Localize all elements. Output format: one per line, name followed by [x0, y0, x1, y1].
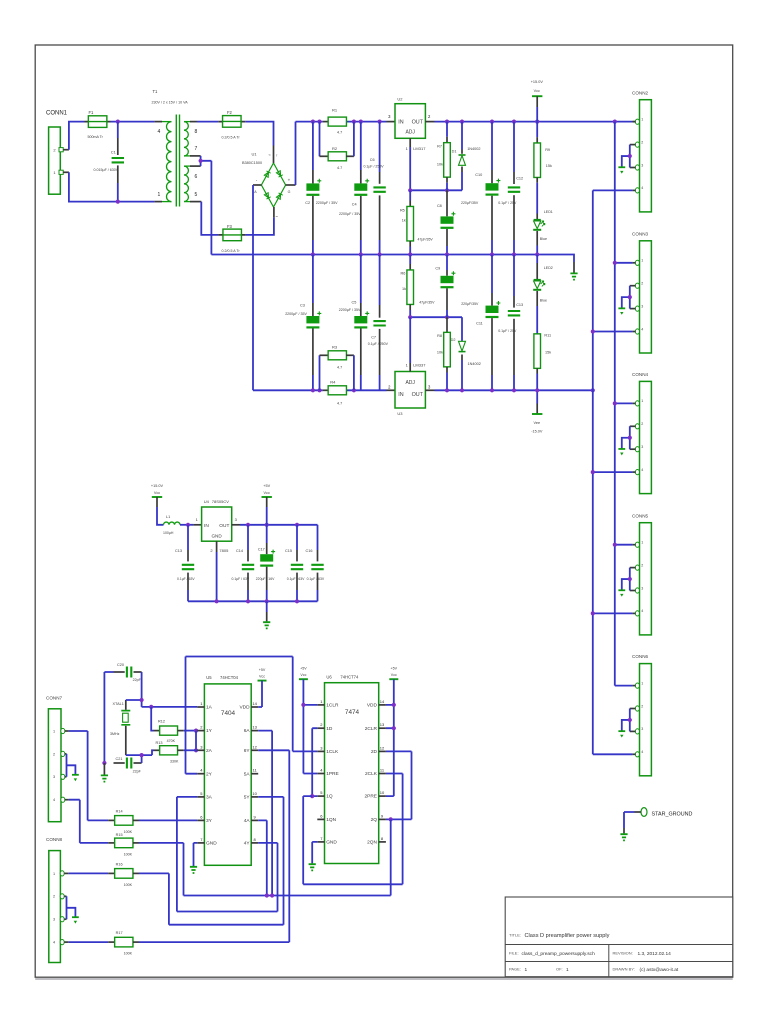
svg-text:R3: R3 — [332, 345, 338, 350]
svg-text:R1: R1 — [332, 108, 338, 113]
svg-text:2: 2 — [53, 752, 55, 756]
junction R3 right — [352, 388, 356, 392]
U4 OUT pin stub — [232, 524, 240, 526]
svg-text:R7: R7 — [437, 144, 442, 148]
wire T1 pin5 to F3 — [201, 202, 218, 235]
U6 pin 10 2PRE — [379, 795, 386, 797]
junction gnd rail mid — [295, 599, 299, 603]
svg-text:TITLE:: TITLE: — [509, 932, 521, 937]
U3 output pin stub — [425, 389, 434, 391]
capacitor C8 — [446, 190, 448, 216]
junction -15V rail — [445, 388, 449, 392]
svg-text:+: + — [288, 177, 291, 182]
svg-text:2200µF / 35V: 2200µF / 35V — [339, 308, 361, 312]
T1 pin 5 — [184, 201, 190, 203]
svg-text:15k: 15k — [546, 164, 552, 168]
ground symbol CONN6 — [618, 730, 625, 732]
svg-text:74HCT74: 74HCT74 — [340, 674, 359, 679]
svg-text:2200µF / 35V: 2200µF / 35V — [339, 212, 361, 216]
junction center tap — [199, 159, 203, 163]
svg-text:+15.0V: +15.0V — [531, 80, 544, 84]
svg-text:5: 5 — [195, 192, 198, 198]
svg-text:6A: 6A — [244, 728, 251, 734]
junction 1Y to 2A tie — [194, 729, 198, 733]
svg-text:IN: IN — [398, 392, 403, 398]
svg-text:0.1µF / 250V: 0.1µF / 250V — [368, 342, 389, 346]
U4 GND pin stub — [216, 541, 218, 552]
CONN6 pin2 stub — [630, 708, 636, 710]
capacitor C21 — [114, 762, 125, 764]
wire CONN3 ground pins — [622, 286, 630, 309]
svg-text:22pF: 22pF — [133, 678, 142, 682]
svg-text:1QN: 1QN — [326, 817, 336, 823]
resistor R15 — [108, 842, 115, 844]
svg-text:CONN1: CONN1 — [46, 111, 68, 117]
svg-text:CONN5: CONN5 — [632, 513, 649, 518]
resistor R1 — [328, 117, 346, 126]
svg-text:2: 2 — [641, 422, 643, 426]
capacitor C2 — [312, 122, 314, 170]
svg-text:C6: C6 — [370, 158, 375, 162]
svg-text:1CLK: 1CLK — [326, 749, 339, 755]
svg-text:GND: GND — [206, 841, 217, 847]
wire CONN8 pin4 to R17 — [69, 941, 109, 943]
svg-text:1N4002: 1N4002 — [467, 147, 480, 151]
svg-text:1: 1 — [525, 967, 528, 973]
connector CONN2 — [640, 100, 652, 212]
svg-text:OUT: OUT — [412, 119, 424, 125]
wire L1 to U4 IN — [180, 524, 193, 526]
ground symbol star ground — [620, 834, 627, 840]
svg-text:C7: C7 — [371, 336, 376, 340]
wire F1 to T1 pin4 — [111, 121, 155, 123]
junction GND rail — [359, 252, 363, 256]
junction 4A bus — [265, 893, 269, 897]
svg-text:+5V: +5V — [259, 668, 266, 672]
CONN5 pin4 stub — [633, 612, 636, 614]
wire 2Y clock to 7474 1CLK — [186, 657, 318, 774]
svg-text:1: 1 — [641, 681, 643, 685]
svg-text:1D: 1D — [326, 726, 333, 732]
CONN1 pin 1 stub — [63, 171, 69, 173]
svg-text:100K: 100K — [124, 852, 133, 856]
fuse F2 — [218, 121, 245, 123]
svg-text:1k: 1k — [402, 287, 406, 291]
CONN5 pin2 stub — [630, 567, 636, 569]
wire CONN7 ground — [67, 754, 76, 777]
connector CONN8 — [49, 851, 61, 963]
resistor R13 — [154, 749, 160, 751]
regulator U4 7805 — [202, 507, 232, 541]
junction R2 left — [317, 120, 321, 124]
connector CONN5 — [640, 523, 652, 635]
regulator U2 LM317 — [395, 104, 425, 139]
svg-text:3: 3 — [641, 163, 643, 167]
U6 pin 9 2Q — [379, 818, 386, 820]
capacitor C5 — [360, 255, 362, 304]
svg-text:3: 3 — [53, 775, 55, 779]
wire CONN1 pin2 to F1 — [69, 122, 85, 150]
svg-text:5A: 5A — [244, 771, 251, 777]
svg-text:U5: U5 — [206, 675, 212, 680]
capacitor C7 — [379, 255, 381, 306]
wire 6A branch to bus L2 — [258, 731, 272, 896]
svg-text:Vee: Vee — [534, 421, 541, 425]
svg-text:C5: C5 — [352, 300, 357, 304]
connector CONN7 — [48, 709, 61, 822]
svg-text:4: 4 — [53, 941, 55, 945]
U5 pin 14 VDD — [251, 706, 258, 708]
wire bridge minus to negative rail — [252, 185, 254, 390]
svg-text:1A: 1A — [206, 705, 213, 711]
svg-text:0.1µF / 25V: 0.1µF / 25V — [498, 329, 517, 333]
svg-text:5Y: 5Y — [244, 795, 251, 801]
junction 2Q — [389, 817, 393, 821]
svg-text:3Y: 3Y — [206, 818, 213, 824]
svg-text:2Q: 2Q — [371, 817, 378, 823]
svg-text:Vcc: Vcc — [264, 491, 270, 495]
svg-text:4.7: 4.7 — [337, 365, 342, 369]
svg-text:R14: R14 — [116, 809, 123, 813]
junction R3 left — [317, 388, 321, 392]
svg-text:1Q: 1Q — [326, 794, 333, 800]
svg-text:470K: 470K — [167, 739, 176, 743]
U3 ADJ pin stub — [409, 363, 411, 372]
junction GND rail — [512, 252, 516, 256]
svg-text:D2: D2 — [451, 338, 456, 342]
svg-text:0.2/0.5 A Tr: 0.2/0.5 A Tr — [222, 249, 241, 253]
wire CONN8 ground — [67, 896, 76, 919]
bridge rectifier U1 — [261, 163, 285, 207]
svg-text:1: 1 — [566, 967, 569, 973]
junction +5V rail — [246, 523, 250, 527]
svg-text:U2: U2 — [397, 96, 403, 101]
wire +5V to VDD 2CLR 2PRE — [386, 679, 394, 796]
wire 1Q loop to 2CLK — [303, 774, 402, 885]
wire crystal bottom node — [126, 750, 154, 763]
junction 1CLR — [301, 703, 305, 707]
svg-text:CONN7: CONN7 — [46, 695, 63, 700]
svg-text:1k: 1k — [402, 218, 406, 222]
wire +5V rail — [240, 524, 318, 526]
svg-text:U1: U1 — [252, 152, 258, 157]
svg-text:2A: 2A — [206, 748, 213, 754]
svg-text:C8: C8 — [437, 204, 442, 208]
svg-text:3: 3 — [641, 304, 643, 308]
U6 pin 7 GND — [317, 841, 324, 843]
U6 pin 4 1PRE — [317, 773, 324, 775]
U6 pin 2 1D — [317, 727, 324, 729]
capacitor C16 — [317, 525, 319, 550]
svg-text:10: 10 — [380, 790, 385, 795]
svg-text:PAGE:: PAGE: — [509, 966, 521, 971]
CONN6 pin3 stub — [630, 730, 636, 732]
svg-text:2PRE: 2PRE — [364, 794, 377, 800]
CONN2 pin3 stub — [630, 167, 636, 169]
CONN7 pin2 stub — [65, 753, 67, 755]
svg-text:220µF/35V: 220µF/35V — [461, 302, 479, 306]
junction +15V rail — [535, 120, 539, 124]
junction C1 bottom — [116, 200, 120, 204]
svg-text:1: 1 — [53, 729, 55, 733]
svg-text:0.2/0.5 A Tr: 0.2/0.5 A Tr — [222, 136, 241, 140]
junction C4 top — [359, 120, 363, 124]
CONN3 pin3 stub — [630, 308, 636, 310]
svg-text:10k: 10k — [437, 350, 443, 354]
svg-text:4: 4 — [641, 186, 643, 190]
CONN4 pin1 stub — [633, 402, 636, 404]
svg-text:4Y: 4Y — [244, 841, 251, 847]
svg-text:XTAL1: XTAL1 — [113, 702, 124, 706]
ground symbol CONN3 — [618, 307, 625, 309]
svg-text:12: 12 — [380, 745, 385, 750]
resistor R12 — [154, 730, 160, 732]
wire R15 to bus L2 — [184, 819, 391, 895]
svg-text:3: 3 — [641, 727, 643, 731]
svg-text:220µF/35V: 220µF/35V — [461, 201, 479, 205]
svg-text:OUT: OUT — [412, 392, 424, 398]
wire F2 to bridge AC1 — [245, 122, 273, 146]
svg-text:4A: 4A — [244, 818, 251, 824]
U5 pin 7 GND — [197, 842, 204, 844]
svg-text:74HCT04: 74HCT04 — [220, 675, 239, 680]
svg-text:R5: R5 — [400, 208, 405, 212]
svg-text:CONN8: CONN8 — [46, 837, 63, 842]
svg-text:REVISION:: REVISION: — [613, 951, 633, 956]
junction R2 right — [352, 120, 356, 124]
junction +15V rail — [512, 120, 516, 124]
svg-text:500mA Tr: 500mA Tr — [88, 135, 104, 139]
svg-text:1Y: 1Y — [206, 728, 213, 734]
wire 1D to 1Q tie — [312, 728, 317, 796]
CONN7 pin4 stub — [65, 799, 69, 801]
svg-text:CONN2: CONN2 — [632, 90, 649, 95]
svg-text:R15: R15 — [116, 833, 123, 837]
svg-text:Class D preamplifier power sup: Class D preamplifier power supply — [525, 933, 610, 939]
svg-text:0.1µF / 250V: 0.1µF / 250V — [364, 164, 385, 168]
svg-text:F1: F1 — [89, 110, 95, 115]
svg-text:2CLR: 2CLR — [365, 726, 378, 732]
svg-text:0.1µF / 63V: 0.1µF / 63V — [232, 577, 250, 581]
junction U6 2CLR — [392, 726, 396, 730]
junction 1Q — [310, 794, 314, 798]
junction -15V rail — [490, 388, 494, 392]
CONN2 pin1 stub — [633, 121, 636, 123]
svg-text:C14: C14 — [236, 549, 243, 553]
CONN6 pin1 stub — [633, 685, 636, 687]
svg-text:100K: 100K — [124, 830, 133, 834]
wire star ground — [624, 812, 635, 828]
U6 pin 11 2CLK — [379, 773, 386, 775]
svg-text:LM337: LM337 — [413, 362, 426, 367]
wire +15V distribution vertical — [614, 122, 616, 686]
resistor R7 — [446, 122, 448, 137]
svg-text:C17: C17 — [258, 548, 265, 552]
resistor R6 — [409, 255, 411, 265]
svg-text:3: 3 — [53, 918, 55, 922]
svg-text:2: 2 — [641, 704, 643, 708]
wire -15V distribution vertical — [592, 190, 594, 754]
CONN7 pin1 stub — [65, 730, 69, 732]
U5 pin 4 2Y — [197, 773, 204, 775]
ground symbol U5 — [190, 867, 197, 873]
svg-text:1: 1 — [641, 118, 643, 122]
svg-text:15k: 15k — [545, 351, 551, 355]
CONN5 pin1 stub — [633, 544, 636, 546]
junction CONN6 ground — [628, 718, 632, 722]
junction R12 left — [149, 705, 153, 709]
U5 pin 6 3Y — [197, 819, 204, 821]
U6 pin 5 1Q — [317, 795, 324, 797]
connector CONN3 — [640, 241, 652, 353]
svg-text:2CLK: 2CLK — [365, 771, 378, 777]
svg-text:14: 14 — [380, 699, 385, 704]
junction U6 VDD — [392, 703, 396, 707]
svg-text:4: 4 — [158, 129, 161, 135]
resistor R17 — [108, 941, 115, 943]
svg-text:100K: 100K — [124, 883, 133, 887]
junction C2 top — [311, 120, 315, 124]
junction ADJ2 R8 — [445, 315, 449, 319]
wire +15V rail — [435, 121, 633, 123]
T1 pin 6 — [184, 165, 190, 167]
svg-text:OUT: OUT — [219, 523, 229, 529]
diode D2 — [461, 317, 463, 341]
wire +15V to CONN5 pin1 — [615, 544, 633, 546]
svg-text:(c) astx@awo-it.at: (c) astx@awo-it.at — [640, 967, 679, 973]
wire CONN4 ground pins — [622, 426, 630, 449]
svg-text:CONN4: CONN4 — [632, 372, 649, 377]
ground symbol CONN2 — [618, 166, 625, 168]
junction GND rail — [311, 252, 315, 256]
junction +15V rail — [445, 120, 449, 124]
wire ADJ network bottom — [410, 316, 462, 318]
capacitor C9 — [446, 255, 448, 271]
capacitor C14a — [187, 525, 189, 550]
wire ADJ network top — [410, 147, 462, 190]
junction gnd rail mid — [246, 599, 250, 603]
wire R12 left branch — [151, 707, 153, 731]
svg-text:4: 4 — [53, 798, 55, 802]
U5 pin 9 4A — [251, 819, 258, 821]
svg-text:2Y: 2Y — [206, 771, 213, 777]
svg-text:2D: 2D — [371, 749, 378, 755]
svg-text:4.7: 4.7 — [337, 166, 342, 170]
U5 pin 10 5Y — [251, 796, 258, 798]
wire VDD U5 — [258, 681, 262, 707]
junction crystal node — [140, 698, 144, 702]
fuse F1 — [85, 121, 111, 123]
svg-text:C1: C1 — [111, 149, 117, 154]
capacitor C11 — [491, 255, 493, 294]
svg-text:4.7: 4.7 — [337, 402, 342, 406]
CONN2 pin4 stub — [633, 189, 636, 191]
CONN4 pin2 stub — [630, 425, 636, 427]
wire +15V to CONN4 pin1 — [615, 402, 633, 404]
wire +5V to 1CLR and 1PRE — [303, 679, 317, 773]
svg-text:GND: GND — [326, 840, 337, 846]
U6 pin 3 1CLK — [317, 750, 324, 752]
U6 ground — [312, 842, 317, 864]
junction -15V vertical — [591, 470, 595, 474]
CONN6 pin4 stub — [633, 753, 636, 755]
LED LED1 — [536, 214, 538, 220]
U5 pin 2 1Y — [197, 730, 204, 732]
svg-text:13: 13 — [252, 725, 257, 730]
capacitor C10 — [491, 122, 493, 170]
T1 pin 8 — [184, 121, 190, 123]
svg-text:0.015µF / 630V: 0.015µF / 630V — [94, 168, 119, 172]
svg-text:1: 1 — [641, 399, 643, 403]
svg-text:100µH: 100µH — [163, 531, 174, 535]
star ground stub — [635, 811, 641, 813]
svg-text:1: 1 — [158, 192, 161, 198]
connector CONN4 — [640, 381, 652, 493]
svg-text:220µF / 16V: 220µF / 16V — [256, 577, 275, 581]
supply Vee -15V symbol — [536, 390, 538, 403]
wire 3A to bus L3 — [177, 797, 278, 912]
svg-text:Vcc: Vcc — [259, 675, 265, 679]
ground symbol CONN7 — [72, 774, 79, 776]
svg-text:C21: C21 — [116, 757, 123, 761]
junction +15V rail — [460, 120, 464, 124]
svg-text:14: 14 — [252, 701, 257, 706]
wire GND center rail — [211, 255, 574, 263]
U2 ADJ pin stub — [409, 138, 411, 147]
fuse F3 — [218, 234, 245, 236]
U6 pin 1 1CLR — [317, 704, 324, 706]
svg-text:/: / — [276, 153, 277, 157]
svg-text:B380C1500: B380C1500 — [242, 161, 262, 165]
svg-text:230V / 2 x 15V / 10 VA: 230V / 2 x 15V / 10 VA — [152, 100, 189, 104]
wire negative rail to LM337 input — [253, 389, 323, 391]
svg-text:-15.0V: -15.0V — [531, 430, 543, 434]
wire CONN1 pin1 to T1 pin1 — [69, 172, 155, 201]
capacitor C6 — [379, 122, 381, 172]
svg-text:class_d_preamp_powersupply.sch: class_d_preamp_powersupply.sch — [522, 951, 596, 957]
svg-text:C12: C12 — [516, 177, 523, 181]
wire to crystal ground — [103, 763, 105, 775]
svg-text:C11: C11 — [476, 321, 483, 325]
title block — [505, 897, 733, 977]
junction CONN4 ground — [628, 436, 632, 440]
svg-text:R8: R8 — [437, 334, 442, 338]
svg-text:R6: R6 — [401, 271, 406, 275]
svg-text:R12: R12 — [158, 719, 165, 723]
svg-text:C13: C13 — [175, 549, 182, 553]
svg-text:10k: 10k — [437, 162, 443, 166]
svg-text:1: 1 — [641, 541, 643, 545]
crystal bottom stub — [125, 726, 127, 755]
svg-text:G: G — [288, 190, 291, 194]
junction ADJ2 R6 — [408, 315, 412, 319]
svg-text:13: 13 — [380, 722, 385, 727]
svg-text:2: 2 — [641, 140, 643, 144]
junction gnd rail mid — [215, 599, 219, 603]
U6 pin 12 2D — [379, 750, 386, 752]
crystal top stub — [125, 700, 127, 710]
wire -15V to CONN6 pin4 — [593, 753, 633, 755]
junction -15V rail — [460, 388, 464, 392]
svg-text:LED1: LED1 — [544, 210, 553, 214]
junction +15V rail — [613, 120, 617, 124]
svg-text:4: 4 — [641, 609, 643, 613]
CONN4 pin3 stub — [630, 448, 636, 450]
svg-text:1CLR: 1CLR — [326, 703, 339, 709]
U5 pin 1 1A — [197, 706, 204, 708]
ground symbol mid rail — [570, 273, 577, 279]
svg-text:78S05CV: 78S05CV — [212, 499, 229, 504]
